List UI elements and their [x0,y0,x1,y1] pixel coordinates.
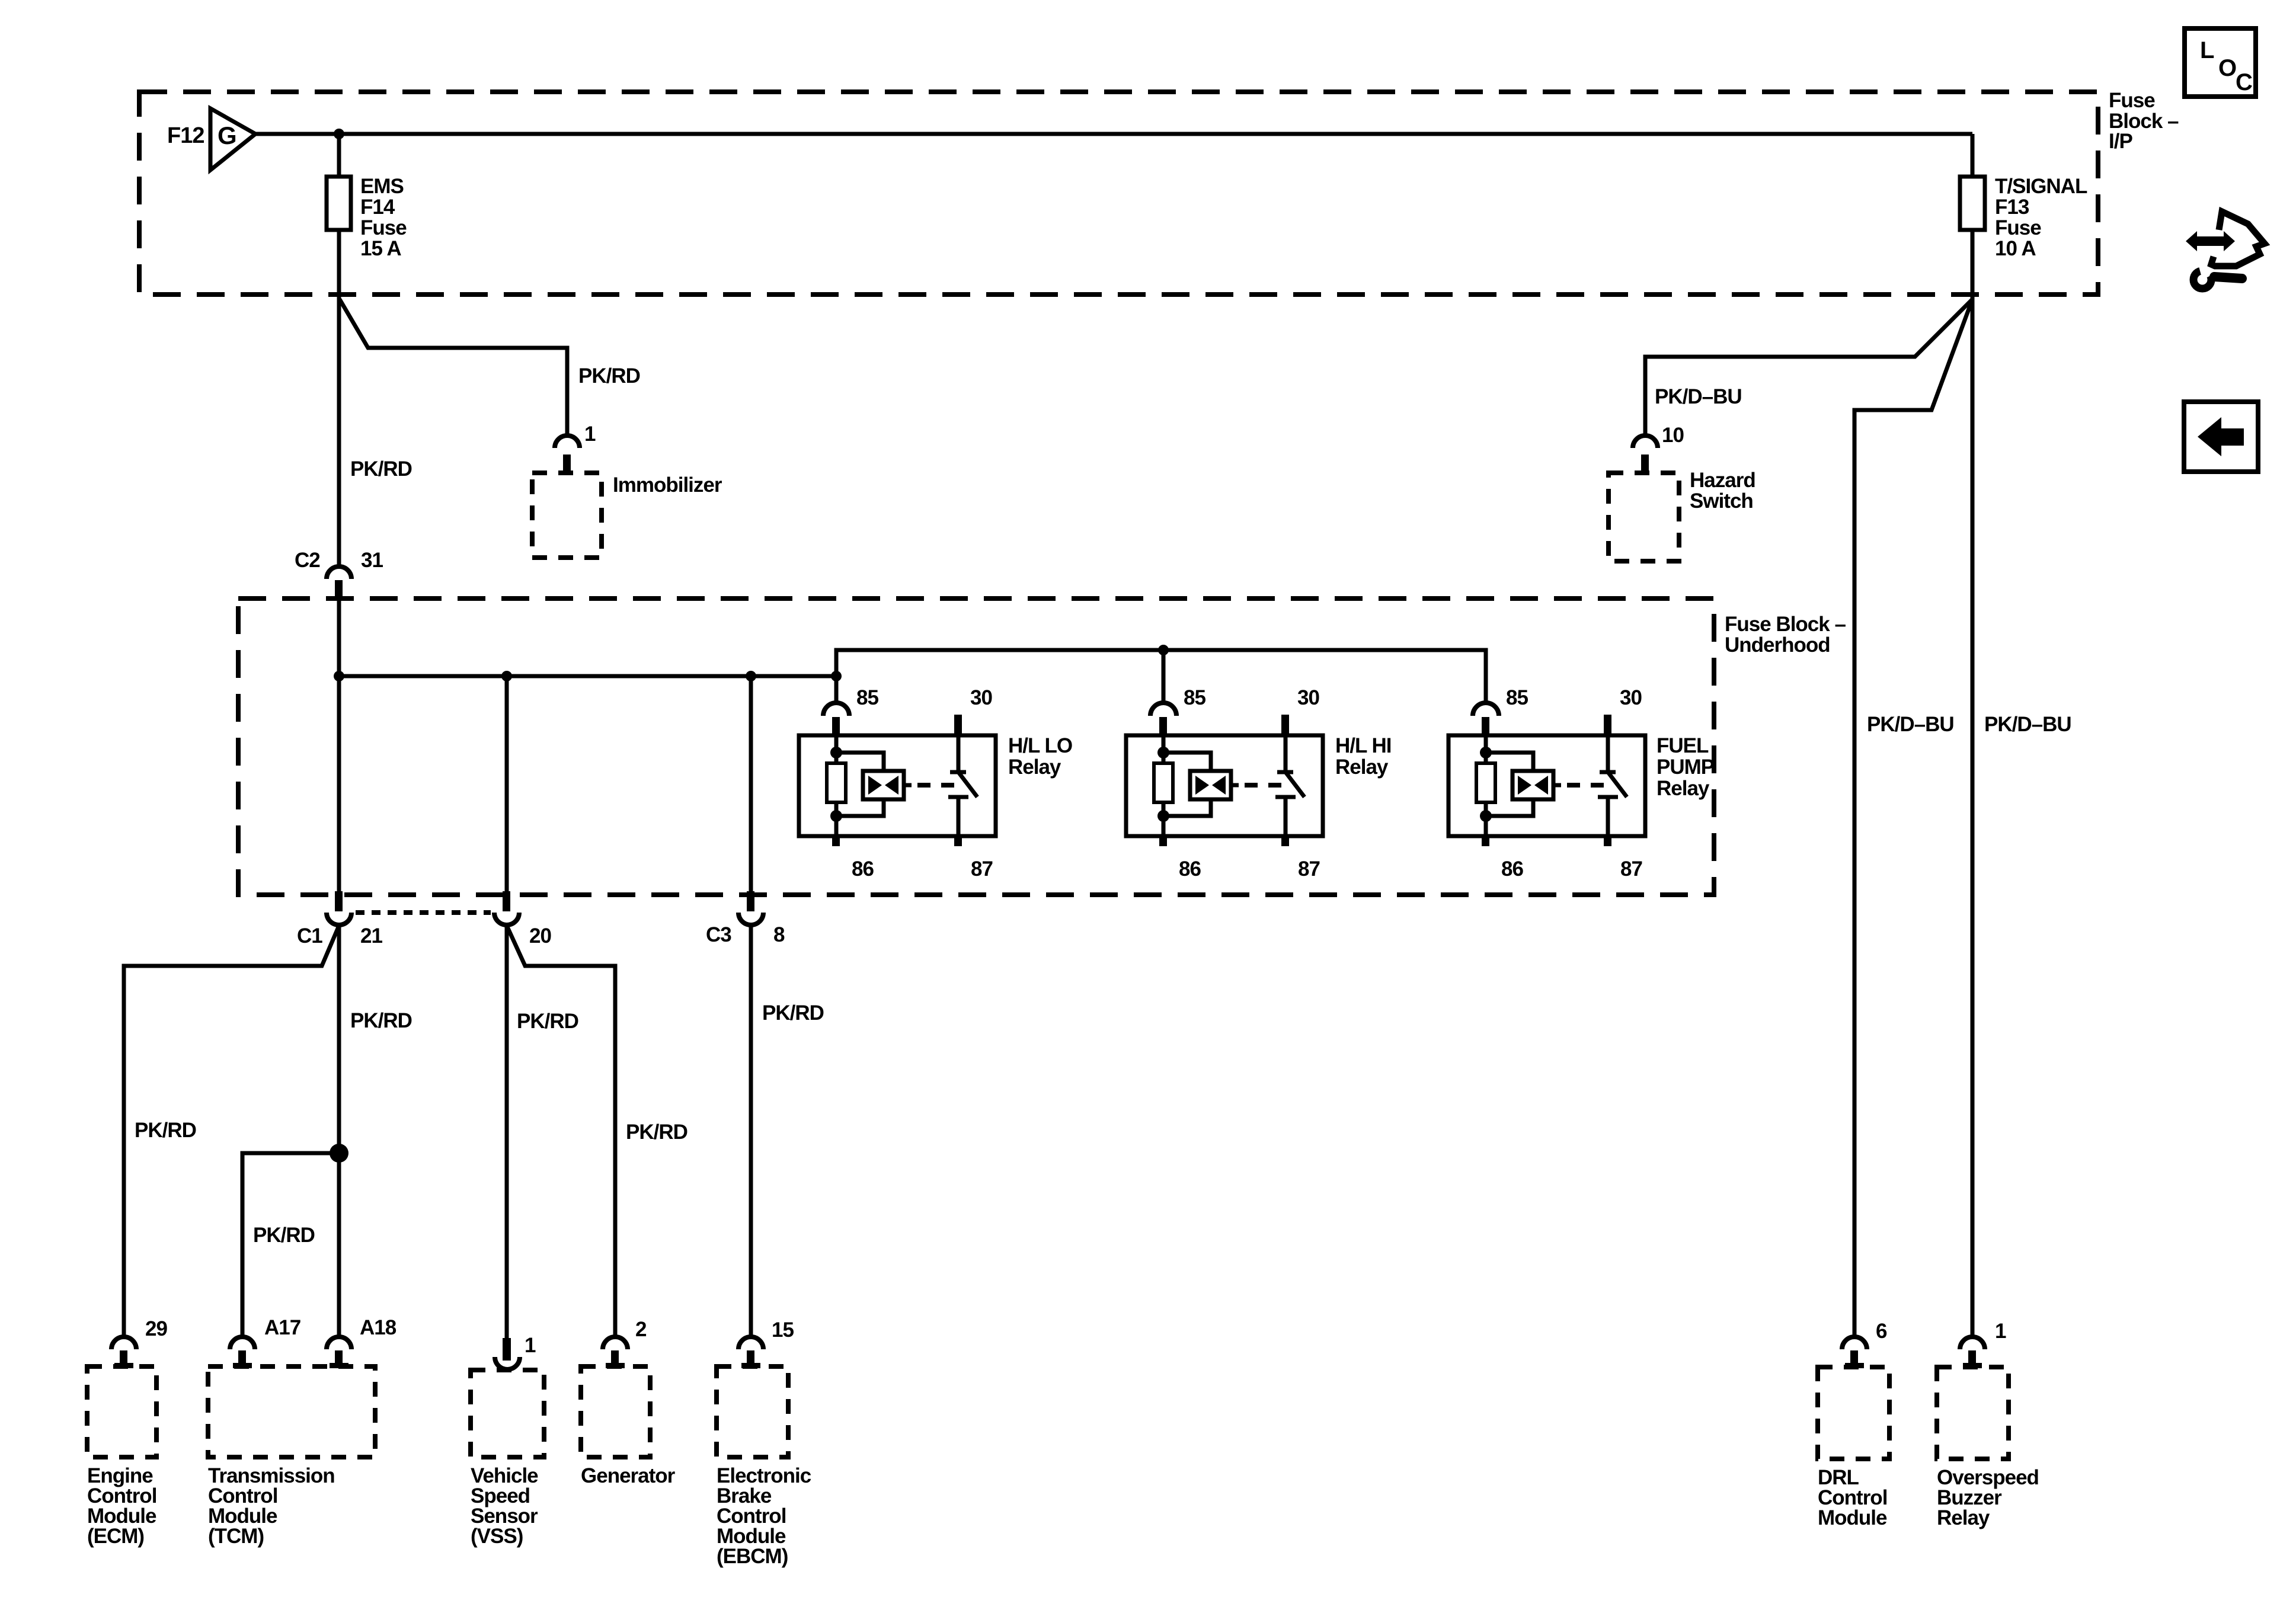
svg-text:(TCM): (TCM) [208,1525,264,1548]
svg-text:31: 31 [361,549,383,572]
svg-text:Generator: Generator [581,1464,676,1487]
svg-text:F13: F13 [1995,196,2029,219]
svg-text:PK/RD: PK/RD [253,1224,315,1247]
svg-text:EMS: EMS [360,175,404,198]
svg-text:A18: A18 [360,1316,396,1339]
svg-text:PK/RD: PK/RD [517,1010,578,1033]
svg-text:1: 1 [525,1334,536,1357]
svg-text:PUMP: PUMP [1657,756,1715,779]
svg-text:A17: A17 [264,1316,300,1339]
svg-text:Fuse Block –: Fuse Block – [1725,613,1846,636]
svg-text:L: L [2200,37,2214,63]
svg-text:86: 86 [852,857,874,881]
svg-text:(VSS): (VSS) [471,1525,523,1548]
svg-text:PK/RD: PK/RD [350,1009,412,1032]
svg-text:H/L HI: H/L HI [1335,734,1391,757]
svg-text:1: 1 [1995,1320,2006,1343]
svg-text:(ECM): (ECM) [87,1525,144,1548]
svg-text:C1: C1 [297,924,322,948]
svg-text:Switch: Switch [1690,489,1753,513]
svg-text:H/L LO: H/L LO [1008,734,1072,757]
svg-text:PK/RD: PK/RD [135,1119,196,1142]
svg-text:Relay: Relay [1937,1506,1990,1529]
svg-text:FUEL: FUEL [1657,734,1709,757]
svg-text:C: C [2236,69,2252,95]
svg-text:Immobilizer: Immobilizer [613,473,722,497]
svg-text:Relay: Relay [1657,777,1710,800]
svg-text:Underhood: Underhood [1725,633,1830,657]
svg-text:PK/RD: PK/RD [626,1121,687,1144]
svg-text:8: 8 [773,923,785,946]
svg-text:87: 87 [971,857,993,881]
svg-text:Module: Module [1818,1506,1887,1529]
svg-text:PK/D–BU: PK/D–BU [1984,713,2071,736]
svg-text:20: 20 [529,924,551,948]
svg-text:85: 85 [856,686,878,709]
svg-text:C2: C2 [295,549,320,572]
svg-text:Relay: Relay [1335,756,1389,779]
svg-text:PK/D–BU: PK/D–BU [1655,385,1742,408]
svg-text:F12: F12 [167,123,204,148]
svg-text:Fuse: Fuse [2109,89,2155,112]
svg-text:(EBCM): (EBCM) [717,1545,788,1568]
svg-text:Hazard: Hazard [1690,469,1755,492]
svg-text:PK/RD: PK/RD [578,364,640,388]
svg-text:PK/RD: PK/RD [762,1001,824,1025]
svg-text:C3: C3 [706,923,731,946]
svg-text:29: 29 [145,1317,167,1340]
svg-text:Fuse: Fuse [360,216,407,239]
svg-text:10 A: 10 A [1995,237,2036,260]
svg-text:10: 10 [1662,424,1684,447]
svg-text:Relay: Relay [1008,756,1061,779]
svg-text:15: 15 [772,1318,794,1342]
svg-text:15 A: 15 A [360,237,401,260]
svg-text:T/SIGNAL: T/SIGNAL [1995,175,2087,198]
svg-text:O: O [2218,55,2236,81]
svg-text:6: 6 [1876,1320,1887,1343]
svg-text:G: G [218,121,236,149]
svg-text:PK/D–BU: PK/D–BU [1867,713,1954,736]
svg-text:2: 2 [635,1318,647,1341]
svg-text:Fuse: Fuse [1995,216,2041,239]
svg-text:1: 1 [584,422,596,446]
svg-text:30: 30 [970,686,992,709]
svg-text:F14: F14 [360,196,395,219]
svg-text:21: 21 [360,924,382,948]
svg-text:PK/RD: PK/RD [350,457,412,481]
svg-text:I/P: I/P [2109,130,2132,153]
